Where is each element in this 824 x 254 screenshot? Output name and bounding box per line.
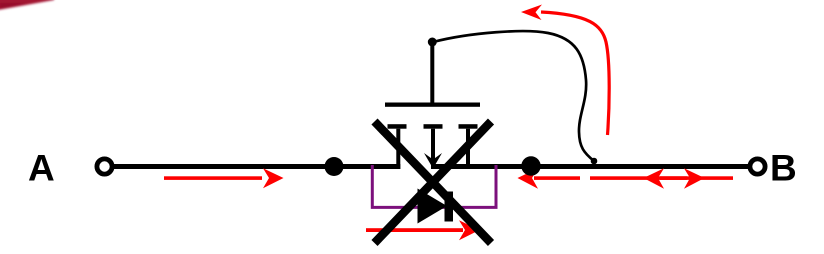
- gate feedback wire: [433, 31, 594, 161]
- red arrow rightward (colliding): [590, 168, 705, 189]
- crossout X stroke 2: [375, 122, 492, 244]
- channel segment left (drain contact): [388, 124, 407, 169]
- node junction dot left: [325, 157, 344, 176]
- red arrow B-side short (leftward): [518, 168, 581, 189]
- crossout X stroke 1: [375, 122, 492, 244]
- gate feedback wire end dot: [591, 158, 598, 165]
- wire source to B: [431, 164, 749, 169]
- gate lead: [430, 41, 434, 103]
- slide corner banner: [0, 0, 54, 10]
- terminal B: [750, 159, 765, 174]
- svg-text:B: B: [770, 148, 797, 189]
- wire A to transistor drain: [112, 164, 400, 169]
- red current arrow A-side: [164, 168, 284, 188]
- red arrow from B (leftward): [644, 168, 734, 189]
- body-diode loop (purple): [372, 165, 496, 207]
- terminal A: [97, 159, 112, 174]
- node junction dot right: [521, 156, 540, 175]
- svg-text:A: A: [28, 148, 55, 189]
- channel segment right (source contact): [459, 124, 478, 169]
- red feedback arrow (curved): [521, 5, 609, 136]
- gate lead dot: [428, 38, 437, 47]
- transistor Q1 gate bar: [385, 103, 480, 107]
- channel segment middle (body) with arrow: [424, 124, 443, 168]
- body diode D1: [418, 189, 454, 224]
- red current arrow through diode: [366, 220, 480, 240]
